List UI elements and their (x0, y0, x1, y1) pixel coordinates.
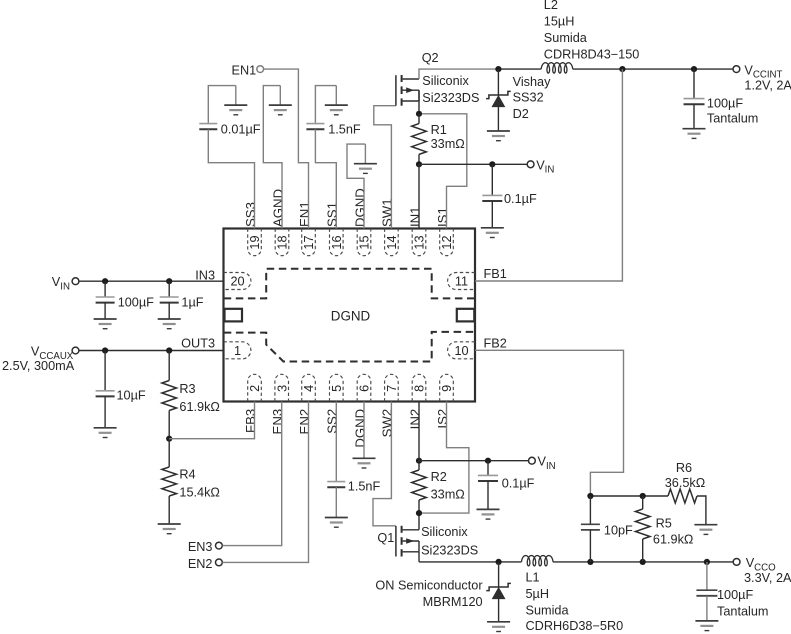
wire IS1 pin 12 sense (422, 114, 467, 229)
wire SS3 cap to ground (208, 86, 236, 125)
svg-text:R6: R6 (676, 461, 692, 475)
svg-text:SS2: SS2 (325, 409, 340, 434)
svg-text:Q2: Q2 (422, 51, 439, 65)
wire cap to pin 16 (315, 129, 336, 228)
svg-text:L2: L2 (544, 0, 558, 12)
svg-text:FB3: FB3 (243, 409, 258, 433)
svg-text:R4: R4 (179, 467, 195, 481)
terminal VIN top (527, 161, 534, 168)
svg-text:IN2: IN2 (407, 409, 422, 430)
capacitor 10pF (581, 524, 600, 530)
wire Q1 to R2 (418, 513, 420, 530)
svg-text:Vishay: Vishay (513, 75, 552, 89)
svg-text:1: 1 (234, 344, 241, 358)
node FB3 divider (166, 436, 172, 442)
svg-text:R3: R3 (179, 382, 195, 396)
resistor R6 (668, 489, 697, 503)
wire R2 top (418, 461, 420, 470)
wire Q1 drain to rail (418, 552, 420, 562)
svg-text:2: 2 (248, 385, 262, 392)
wire to 10pF (589, 496, 591, 524)
svg-text:D2: D2 (513, 107, 529, 121)
svg-text:61.9kΩ: 61.9kΩ (653, 533, 694, 547)
wire FB2 node (590, 495, 668, 497)
wire IN2 pin 8 (418, 402, 420, 461)
node IN2 R2 (416, 458, 422, 464)
svg-text:10pF: 10pF (604, 523, 633, 537)
terminal VCCINT (733, 66, 740, 73)
svg-text:3: 3 (275, 385, 289, 392)
wire R4 to ground (168, 496, 170, 524)
wire rail to L1 (419, 561, 522, 563)
svg-text:12: 12 (440, 235, 454, 249)
node 1uF (166, 278, 172, 284)
terminal EN2 (216, 559, 223, 566)
svg-text:20: 20 (230, 275, 244, 289)
svg-text:10: 10 (454, 344, 468, 358)
pad left rect (225, 309, 243, 322)
wire 0.1uF bottom ground (487, 481, 489, 509)
svg-text:SS32: SS32 (513, 90, 544, 104)
wire ground stem SS1 (335, 86, 337, 106)
pin 8 (412, 374, 426, 401)
svg-text:IN3: IN3 (195, 268, 215, 282)
svg-text:15µH: 15µH (544, 14, 575, 28)
svg-text:5µH: 5µH (526, 587, 550, 601)
diode D2 (486, 91, 511, 106)
resistor R3 (162, 381, 177, 411)
wire L1 to VCCO (553, 561, 733, 563)
capacitor 0.1uF bottom (478, 475, 498, 481)
svg-text:IS2: IS2 (435, 409, 450, 429)
wire rail to MBRM120 (498, 562, 500, 587)
node 100uF top (691, 66, 697, 72)
svg-text:Si2323DS: Si2323DS (422, 91, 479, 105)
node DGND thermal pad (224, 269, 475, 362)
pin 2 (248, 374, 262, 401)
svg-text:10µF: 10µF (117, 389, 146, 403)
svg-text:9: 9 (440, 385, 454, 392)
pad right rect (457, 309, 475, 322)
svg-text:FB2: FB2 (484, 337, 507, 351)
node MBRM120 (496, 559, 502, 565)
svg-text:L1: L1 (526, 570, 540, 584)
terminal VCCAUX (72, 347, 79, 354)
pin 11 (448, 273, 475, 290)
svg-text:SW1: SW1 (380, 198, 395, 227)
wire EN3 pin 3 (222, 402, 281, 546)
svg-text:18: 18 (276, 235, 290, 249)
wire rail to 100uF bottom (706, 562, 708, 590)
wire EN2 pin 4 (222, 402, 308, 563)
svg-text:Siliconix: Siliconix (422, 74, 469, 88)
node 0.1uF bottom (485, 458, 491, 464)
wire 1.5nF to ground (335, 487, 337, 517)
wire SW2 to Q1 gate (373, 402, 396, 526)
svg-text:33mΩ: 33mΩ (431, 488, 465, 502)
svg-text:100µF: 100µF (118, 295, 154, 309)
wire rail to L2 (498, 68, 541, 70)
svg-text:1.5nF: 1.5nF (328, 122, 361, 136)
inductor L2 (541, 63, 573, 73)
pin 5 (330, 374, 344, 401)
node 100uF left (102, 278, 108, 284)
wire ground stem (235, 86, 237, 106)
svg-text:Sumida: Sumida (544, 31, 588, 45)
svg-text:15.4kΩ: 15.4kΩ (179, 485, 220, 499)
IC U1 body (224, 229, 476, 402)
capacitor 10uF (96, 391, 115, 397)
ground D2 (487, 131, 510, 141)
ground 100uF bottom (695, 621, 718, 631)
wire SS1 cap to ground (315, 86, 336, 125)
wire to 100uF left (104, 281, 106, 297)
svg-text:13: 13 (413, 235, 427, 249)
wire R5 bottom (642, 539, 644, 562)
node FB2 10pF (587, 493, 593, 499)
svg-text:DGND: DGND (352, 409, 367, 448)
ground R6 (694, 525, 717, 535)
svg-text:Sumida: Sumida (526, 604, 570, 618)
resistor R4 (162, 467, 177, 496)
svg-text:EN2: EN2 (297, 409, 312, 435)
svg-text:FB1: FB1 (484, 267, 507, 281)
wire pin 5 to 1.5nF (335, 402, 337, 482)
wire rail to D2 (497, 69, 499, 95)
wire to 0.1uF (491, 164, 493, 196)
svg-text:0.01µF: 0.01µF (221, 122, 261, 136)
diode MBRM120 (486, 583, 511, 598)
transistor Q1 (396, 526, 419, 557)
wire 100uF left ground (104, 303, 106, 319)
svg-text:14: 14 (385, 235, 399, 249)
wire cap to pin 19 (208, 129, 254, 228)
svg-text:IS1: IS1 (435, 207, 450, 227)
terminal VCCO (733, 559, 740, 566)
pin 17 (302, 229, 316, 256)
svg-text:11: 11 (455, 275, 468, 289)
transistor Q2 (396, 75, 419, 106)
node D2 (495, 66, 501, 72)
wire IS2 pin 9 sense (422, 402, 469, 514)
wire to 10uF (104, 351, 106, 391)
wire R2 bottom (418, 500, 420, 513)
pin 20 (224, 273, 251, 290)
svg-text:36.5kΩ: 36.5kΩ (665, 476, 706, 490)
node 10pF bottom (587, 559, 593, 565)
wire MBRM120 to ground (498, 599, 500, 622)
wire AGND pin 18 (263, 86, 282, 229)
svg-text:R1: R1 (431, 123, 447, 137)
ground 100uF left (94, 319, 117, 329)
svg-text:2.5V, 300mA: 2.5V, 300mA (2, 359, 75, 373)
wire ground stem DGND15 (364, 144, 366, 164)
svg-text:61.9kΩ: 61.9kΩ (179, 400, 220, 414)
wire 10pF to rail (589, 530, 591, 562)
svg-text:CDRH6D38−5R0: CDRH6D38−5R0 (526, 619, 624, 633)
pin 10 (448, 342, 475, 359)
node VIN top (416, 161, 422, 167)
terminal EN1 (257, 66, 264, 73)
svg-text:16: 16 (330, 235, 344, 249)
svg-text:Q1: Q1 (377, 531, 394, 545)
wire rail to 100uF (693, 69, 695, 99)
terminal EN3 (216, 542, 223, 549)
svg-text:Tantalum: Tantalum (707, 112, 758, 126)
svg-text:EN1: EN1 (297, 201, 312, 227)
terminal VIN left (72, 278, 79, 285)
svg-text:Si2323DS: Si2323DS (421, 544, 478, 558)
wire to 1uF (168, 281, 170, 297)
capacitor 1uF (160, 297, 179, 303)
pin 4 (302, 374, 316, 401)
ground 100uF top (683, 129, 706, 139)
wire R1 top (418, 114, 420, 124)
svg-text:17: 17 (302, 235, 316, 249)
wire R6 to ground (697, 496, 706, 525)
svg-text:DGND: DGND (352, 188, 367, 227)
ground DGND pin 6 (353, 458, 376, 468)
wire L2 to VCCINT (573, 68, 733, 70)
pin 16 (330, 229, 344, 256)
capacitor 100uF top (684, 99, 705, 105)
wire FB1 (475, 69, 622, 281)
svg-text:8: 8 (413, 385, 427, 392)
capacitor 1.5nF top (306, 124, 324, 130)
pin 6 (357, 374, 371, 401)
svg-text:AGND: AGND (270, 189, 285, 227)
wire to R3 (168, 351, 170, 381)
ground SS1 (325, 105, 348, 115)
svg-text:OUT3: OUT3 (181, 336, 215, 350)
ground 10uF (94, 428, 117, 438)
svg-text:0.1µF: 0.1µF (504, 192, 537, 206)
svg-text:1.2V, 2A: 1.2V, 2A (744, 79, 791, 93)
svg-text:MBRM120: MBRM120 (423, 595, 483, 609)
wire 10uF ground (104, 396, 106, 427)
wire VIN node to terminal (419, 163, 527, 165)
wire R1 bottom (418, 154, 420, 164)
wire R3 to R4 (168, 411, 170, 439)
svg-text:5: 5 (330, 385, 344, 392)
wire Q2 source to R1 (418, 90, 420, 114)
pin 1 (224, 342, 251, 359)
wire pin 6 to ground (363, 402, 365, 459)
wire FB2 (475, 350, 624, 496)
svg-text:0.1µF: 0.1µF (502, 476, 535, 490)
wire DGND pin 15 (347, 144, 365, 228)
wire FB3 pin 2 (169, 402, 254, 439)
capacitor 100uF bottom (696, 590, 717, 596)
wire OUT3 (79, 350, 224, 352)
pin 9 (440, 374, 454, 401)
svg-text:Siliconix: Siliconix (421, 525, 468, 539)
svg-text:DGND: DGND (331, 309, 371, 324)
svg-text:EN1: EN1 (232, 63, 257, 77)
svg-text:SS3: SS3 (243, 202, 258, 227)
wire 100uF bottom ground (706, 596, 708, 621)
ground SS3 (224, 105, 247, 115)
svg-text:4: 4 (302, 385, 316, 392)
node 10uF (102, 347, 108, 353)
wire R5 top (642, 496, 644, 509)
svg-text:Tantalum: Tantalum (717, 605, 768, 619)
wire 0.1uF to ground (491, 201, 493, 228)
node 0.1uF top (489, 161, 495, 167)
wire IN2 to VIN (419, 460, 528, 462)
node Q2 source R1 (416, 111, 422, 117)
svg-text:15: 15 (358, 235, 372, 249)
svg-text:SW2: SW2 (380, 409, 395, 438)
node FB1 tap (619, 66, 625, 72)
wire D2 to ground (497, 107, 499, 131)
svg-text:EN3: EN3 (270, 409, 285, 435)
ground AGND (269, 105, 292, 115)
wire SW1 to Q2 gate (374, 106, 396, 229)
ground MBRM120 (487, 622, 510, 632)
pin 18 (275, 229, 289, 256)
svg-text:1.5nF: 1.5nF (348, 480, 381, 494)
pin 19 (248, 229, 262, 256)
svg-text:ON Semiconductor: ON Semiconductor (375, 578, 483, 592)
wire 100uF to ground (693, 104, 695, 129)
wire to 0.1uF bottom (487, 461, 489, 476)
wire Q2 drain to rail (419, 69, 498, 79)
svg-text:CDRH8D43−150: CDRH8D43−150 (544, 47, 640, 61)
pin 12 (440, 229, 454, 256)
svg-text:3.3V, 2A: 3.3V, 2A (744, 571, 791, 585)
wire ground stem AGND (279, 86, 281, 106)
wire EN1 to pin 17 (264, 69, 309, 228)
wire IN1 pin 13 (418, 164, 420, 228)
svg-text:7: 7 (385, 385, 399, 392)
node R5 bottom (640, 559, 646, 565)
wire 1uF ground (168, 303, 170, 319)
wire R4 top (168, 439, 170, 467)
svg-text:19: 19 (248, 235, 262, 249)
pin 14 (385, 229, 399, 256)
svg-text:EN3: EN3 (188, 540, 213, 554)
terminal VIN bottom (529, 457, 536, 464)
node R3 top (166, 347, 172, 353)
svg-text:R2: R2 (431, 470, 447, 484)
resistor R2 (412, 470, 427, 500)
svg-text:EN2: EN2 (188, 557, 213, 571)
svg-text:6: 6 (358, 385, 372, 392)
wire IN3 (79, 280, 224, 282)
pin 13 (412, 229, 426, 256)
capacitor 0.1uF top (482, 195, 502, 201)
pin 7 (385, 374, 399, 401)
ground 0.1uF top (481, 228, 504, 238)
node FB2 R5 (640, 493, 646, 499)
capacitor 100uF left (96, 297, 115, 303)
pin 15 (357, 229, 371, 256)
ground DGND pin 15 (354, 164, 377, 174)
pin 3 (275, 374, 289, 401)
ground 1.5nF bottom (325, 518, 348, 528)
capacitor 0.01uF (199, 124, 217, 130)
svg-text:1µF: 1µF (181, 295, 203, 309)
svg-text:100µF: 100µF (717, 588, 753, 602)
inductor L1 (522, 556, 554, 566)
capacitor 1.5nF bottom (327, 482, 345, 488)
svg-text:100µF: 100µF (707, 97, 743, 111)
node 100uF bottom (704, 559, 710, 565)
svg-text:R5: R5 (656, 517, 672, 531)
resistor R5 (635, 509, 650, 539)
ground 1uF (158, 319, 181, 329)
ground 0.1uF bottom (477, 509, 500, 519)
svg-text:SS1: SS1 (325, 202, 340, 227)
resistor R1 (412, 124, 427, 155)
svg-text:IN1: IN1 (407, 206, 422, 227)
node R2 Q1 (416, 510, 422, 516)
svg-text:33mΩ: 33mΩ (431, 137, 465, 151)
ground R4 (158, 524, 181, 534)
